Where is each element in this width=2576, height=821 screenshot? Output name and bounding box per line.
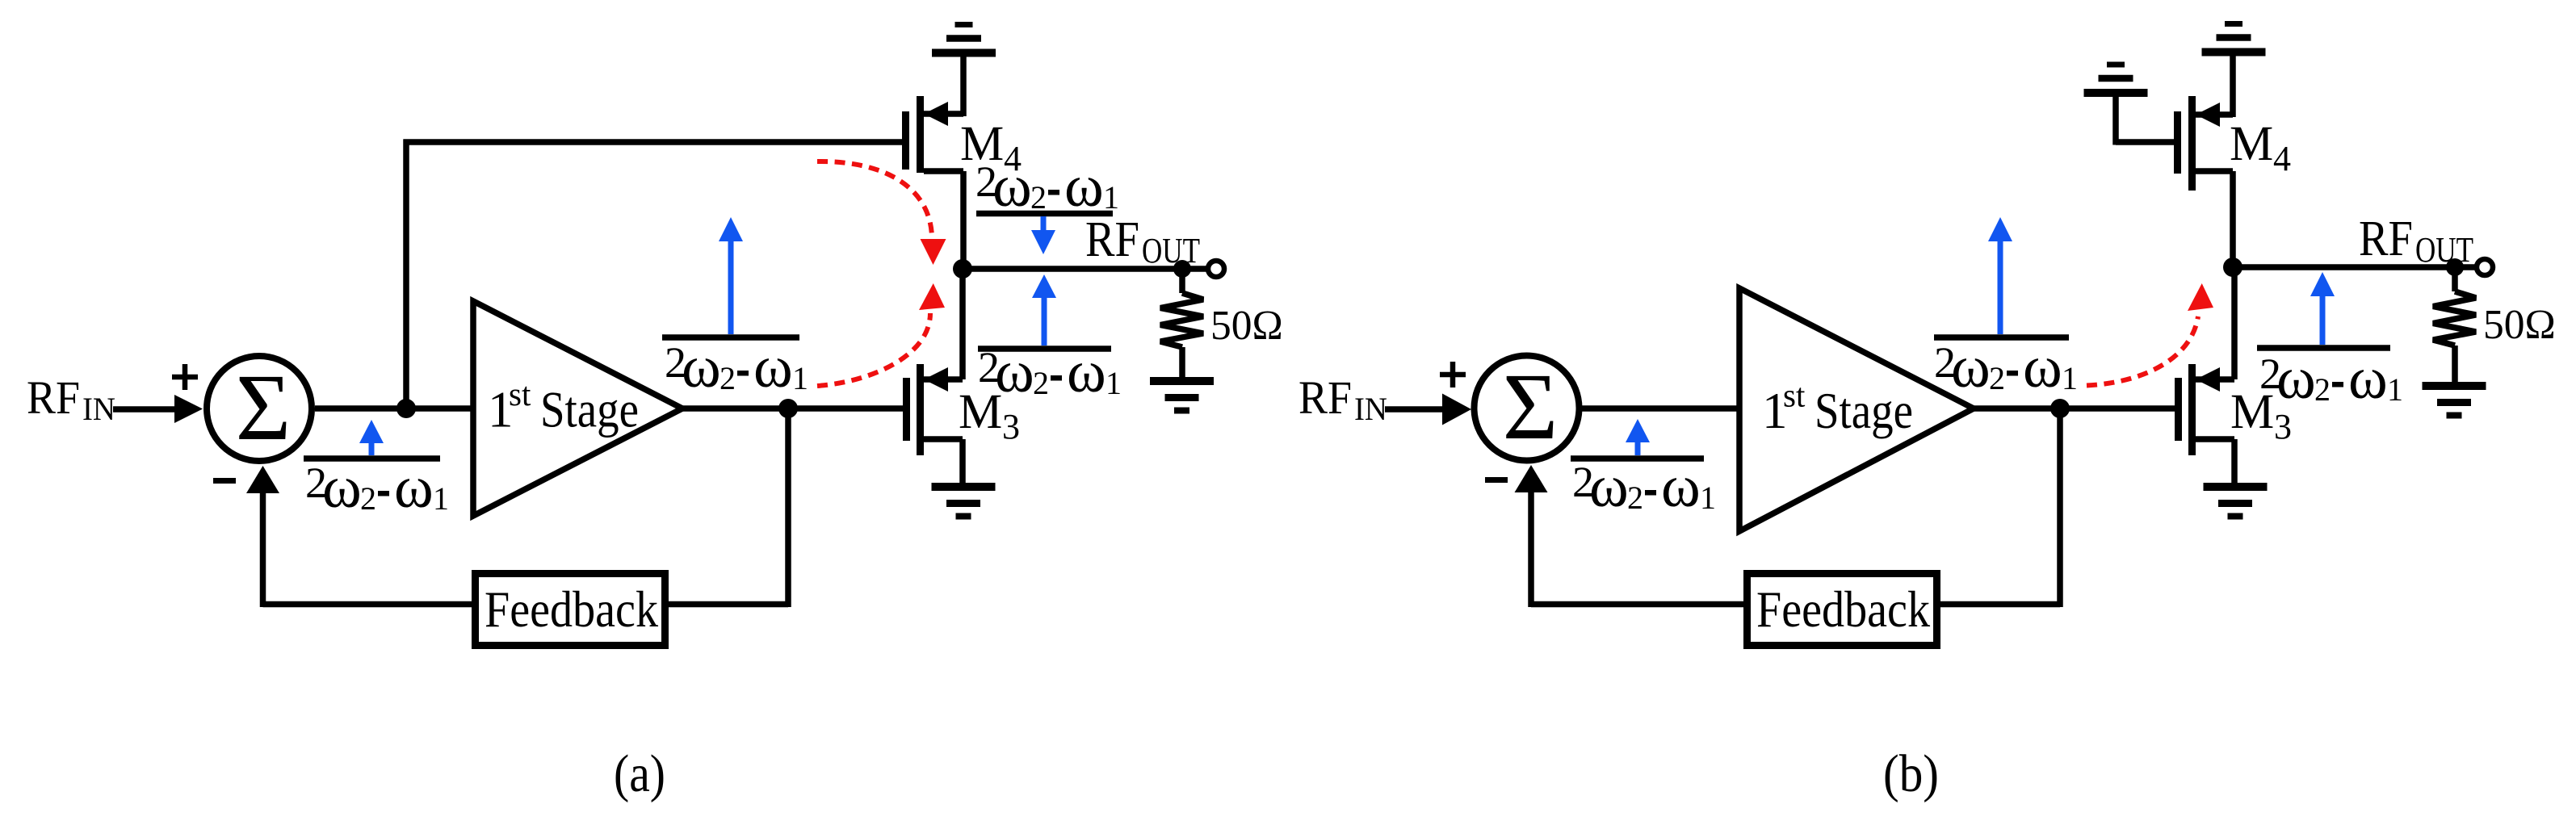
transistor M3 (a) gate bar bbox=[903, 378, 910, 441]
1st Stage text (a) bbox=[488, 375, 639, 438]
Feedback box (b) bbox=[1747, 574, 1937, 646]
M3 label (b) bbox=[2230, 385, 2292, 446]
RF_OUT label (a) bbox=[1085, 212, 1200, 270]
svg-text:3: 3 bbox=[1002, 407, 1020, 446]
spectrum baseline at summer output (a) bbox=[304, 455, 440, 462]
feedback wire to box (a) bbox=[669, 601, 788, 608]
M3 drain lead with arrow (a) bbox=[924, 367, 963, 392]
M4 source rail down to output node (a) bbox=[960, 171, 967, 269]
svg-text:st: st bbox=[509, 375, 531, 413]
spectrum baseline at summer output (b) bbox=[1571, 455, 1704, 462]
M4 gate lead to gate ground (b) bbox=[2116, 92, 2174, 145]
plus sign at summer (a) bbox=[172, 364, 198, 390]
transistor M4 (a) channel bar bbox=[917, 96, 924, 173]
feedback wire from box to summer (b) bbox=[1531, 492, 1743, 607]
spectrum label at stage output (a) bbox=[665, 334, 808, 400]
M3 drain lead with arrow (b) bbox=[2196, 367, 2234, 392]
feedback wire to box (b) bbox=[1940, 601, 2060, 608]
feedforward wire to M4 gate (a) bbox=[404, 139, 904, 145]
ground above M4 (b) bbox=[2202, 24, 2266, 52]
feedback tap wire down from node B (a) bbox=[785, 408, 791, 607]
blue arrow at summer output (a) bbox=[359, 420, 384, 455]
spectrum label under output wire (b) bbox=[2259, 346, 2403, 412]
node B output tap (a) bbox=[778, 399, 798, 418]
blue arrow at summer output (b) bbox=[1626, 419, 1650, 455]
node A input tap (a) bbox=[396, 399, 416, 418]
spectrum baseline at stage output (b) bbox=[1934, 334, 2069, 341]
RF_OUT terminal circle (b) bbox=[2477, 259, 2493, 275]
wire 1st stage output to M3 gate (b) bbox=[1974, 405, 2176, 412]
feedback wire from box to summer (a) bbox=[263, 491, 472, 607]
wire summer to 1st stage (b) bbox=[1582, 405, 1739, 412]
M4 source rail down to output node (b) bbox=[2230, 171, 2236, 267]
spectrum label at summer output (b) bbox=[1572, 454, 1716, 520]
svg-text:(b): (b) bbox=[1883, 744, 1939, 803]
blue arrow up to output wire (b) bbox=[2310, 272, 2335, 345]
wire RF_IN to summer (b) bbox=[1385, 406, 1445, 413]
spectrum underline below M4 label (a) bbox=[976, 211, 1113, 217]
red dashed arc (b) bbox=[2087, 283, 2213, 386]
node output tap (b) bbox=[2050, 399, 2070, 418]
svg-text:4: 4 bbox=[2273, 139, 2291, 178]
M3 drain rail up to output node (a) bbox=[959, 269, 966, 379]
node at resistor junction (b) bbox=[2446, 258, 2464, 276]
M3 label (a) bbox=[959, 385, 1020, 446]
blue arrow down from M4 label (a) bbox=[1031, 216, 1055, 254]
M4 drain lead with arrow (b) bbox=[2196, 103, 2233, 127]
spectrum baseline at stage output (a) bbox=[662, 334, 799, 341]
svg-text:RF: RF bbox=[27, 371, 80, 424]
svg-text:Σ: Σ bbox=[1503, 354, 1559, 459]
ground under M3 (b) bbox=[2204, 487, 2268, 517]
svg-text:st: st bbox=[1783, 377, 1806, 414]
resistor 50ohm (b) bbox=[2433, 267, 2476, 382]
M4 drain rail to top ground (a) bbox=[960, 52, 967, 116]
blue arrow at stage output (b) bbox=[1988, 217, 2012, 334]
M4 source lead (a) bbox=[924, 168, 963, 174]
M3 source lead (a) bbox=[924, 439, 963, 485]
caption (a) bbox=[614, 744, 665, 803]
Feedback box (a) bbox=[476, 574, 665, 646]
transistor M4 (b) channel bar bbox=[2188, 96, 2196, 191]
op-amp triangle 1st Stage (b) bbox=[1739, 288, 1974, 531]
spectrum label under output wire (a) bbox=[978, 339, 1122, 405]
feedforward wire up from node A (a) bbox=[403, 140, 409, 409]
minus sign at summer (b) bbox=[1485, 477, 1508, 483]
transistor M3 (a) channel bar bbox=[917, 364, 924, 455]
transistor M3 (b) channel bar bbox=[2188, 364, 2196, 455]
ground above M4 (a) bbox=[932, 25, 996, 53]
svg-text:RF: RF bbox=[1085, 212, 1139, 267]
spectrum label at stage output (b) bbox=[1934, 334, 2078, 400]
red dashed arc lower (a) bbox=[817, 283, 945, 386]
M4 drain lead with arrow (a) bbox=[924, 102, 963, 126]
resistor 50ohm (a) bbox=[1160, 269, 1203, 377]
svg-text:Feedback: Feedback bbox=[1756, 581, 1930, 638]
plus sign at summer (b) bbox=[1440, 362, 1466, 387]
arrowhead into summer + input (a) bbox=[174, 395, 203, 423]
svg-text:Stage: Stage bbox=[1815, 383, 1913, 439]
blue arrow up to output wire (a) bbox=[1032, 274, 1056, 346]
svg-text:OUT: OUT bbox=[2415, 230, 2473, 270]
op-amp triangle 1st Stage (a) bbox=[473, 301, 682, 516]
ground under resistor (a) bbox=[1150, 381, 1214, 411]
red dashed arc upper (a) bbox=[817, 161, 946, 265]
spectrum label below M4 (a) bbox=[975, 153, 1119, 220]
M3 source lead (b) bbox=[2196, 439, 2234, 485]
M4 drain rail to top ground (b) bbox=[2230, 52, 2236, 117]
node at resistor junction (a) bbox=[1173, 260, 1191, 278]
svg-text:RF: RF bbox=[2359, 212, 2413, 266]
transistor M3 (b) gate bar bbox=[2175, 378, 2182, 441]
svg-text:IN: IN bbox=[82, 391, 115, 427]
svg-text:50Ω: 50Ω bbox=[2483, 302, 2556, 348]
1st Stage text (b) bbox=[1762, 377, 1913, 440]
sigma symbol (a) bbox=[236, 354, 292, 460]
arrowhead into summer bottom (a) bbox=[246, 466, 279, 493]
spectrum label at summer output (a) bbox=[305, 454, 449, 521]
svg-text:50Ω: 50Ω bbox=[1210, 303, 1283, 349]
transistor M4 (b) gate bar bbox=[2174, 111, 2181, 174]
svg-text:RF: RF bbox=[1298, 371, 1352, 424]
RF_OUT label (b) bbox=[2359, 212, 2473, 270]
wire 1st stage output to M3 gate (a) bbox=[682, 405, 904, 412]
M4 label (a) bbox=[960, 117, 1022, 178]
ground under resistor (b) bbox=[2423, 386, 2486, 416]
arrowhead into summer bottom (b) bbox=[1515, 465, 1548, 492]
RF_IN label (b) bbox=[1298, 371, 1387, 427]
wire summer to 1st stage (a) bbox=[315, 405, 473, 412]
spectrum baseline under output wire (a) bbox=[978, 346, 1111, 352]
caption (b) bbox=[1883, 744, 1939, 803]
svg-text:Stage: Stage bbox=[540, 382, 639, 438]
svg-text:(a): (a) bbox=[614, 744, 665, 803]
Feedback text (a) bbox=[485, 581, 658, 638]
blue arrow at stage output (a) bbox=[719, 217, 743, 334]
output node (a) bbox=[953, 259, 972, 279]
svg-text:M: M bbox=[2230, 117, 2273, 171]
summing junction circle (b) bbox=[1475, 356, 1580, 461]
summing junction circle (a) bbox=[207, 356, 312, 461]
RF_IN label (a) bbox=[27, 371, 115, 427]
sigma symbol (b) bbox=[1503, 354, 1559, 459]
svg-text:Σ: Σ bbox=[236, 354, 292, 460]
Feedback text (b) bbox=[1756, 581, 1930, 638]
ground at M4 gate (b) bbox=[2084, 65, 2148, 93]
50 ohm label (a) bbox=[1210, 303, 1283, 349]
svg-text:OUT: OUT bbox=[1142, 231, 1200, 270]
output node (b) bbox=[2223, 258, 2242, 277]
M4 source lead (b) bbox=[2196, 168, 2233, 174]
minus sign at summer (a) bbox=[213, 478, 236, 484]
svg-text:3: 3 bbox=[2274, 407, 2292, 446]
spectrum baseline under output wire (b) bbox=[2257, 345, 2390, 351]
wire RF_IN to summer (a) bbox=[113, 406, 178, 413]
svg-text:Feedback: Feedback bbox=[485, 581, 658, 638]
arrowhead into summer input (b) bbox=[1442, 394, 1471, 425]
M4 label (b) bbox=[2230, 117, 2291, 178]
output wire to RF_OUT (a) bbox=[963, 266, 1206, 272]
ground under M3 (a) bbox=[932, 487, 996, 517]
50 ohm label (b) bbox=[2483, 302, 2556, 348]
M3 drain rail up to output node (b) bbox=[2231, 267, 2238, 379]
RF_OUT terminal circle (a) bbox=[1208, 261, 1224, 277]
feedback tap wire down from node (b) bbox=[2057, 408, 2063, 607]
svg-text:IN: IN bbox=[1354, 391, 1387, 427]
transistor M4 (a) gate bar bbox=[902, 111, 909, 170]
output wire to RF_OUT (b) bbox=[2233, 264, 2475, 270]
